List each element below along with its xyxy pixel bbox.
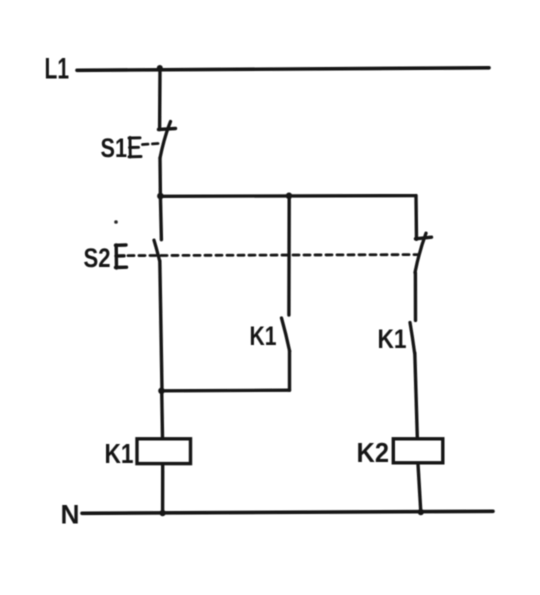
pushbutton S2 right contact (NC) moving contact (415, 233, 426, 272)
wire node A to right branch (horizontal) (160, 194, 416, 198)
node C junction dot (158, 388, 165, 395)
svg-text:S1: S1 (101, 133, 128, 163)
wire seal-in horizontal connector (162, 389, 290, 393)
node A junction dot (157, 193, 164, 200)
coil K2 box (393, 439, 443, 463)
svg-text:L1: L1 (45, 53, 70, 86)
junction dot N/right branch (418, 509, 424, 515)
wire node B to K1 mid contact (287, 196, 291, 315)
S2 mechanical link dashed line (128, 255, 418, 256)
wire coil K2 to N (418, 464, 421, 512)
rail N (82, 511, 493, 513)
contact K1 right (NO) moving contact (410, 323, 415, 354)
wire L1 to S1 (158, 70, 162, 130)
svg-text:K1: K1 (378, 324, 407, 354)
rail L1 (77, 68, 489, 71)
wire coil K1 to N (161, 465, 164, 513)
svg-text:N: N (61, 500, 80, 530)
contact K1 mid (NO) moving contact (282, 318, 290, 351)
node B junction dot (286, 193, 293, 200)
wire K1 right contact to coil K2 (415, 353, 418, 437)
wire S1 to node A (158, 158, 162, 196)
wire node C to coil K1 (160, 391, 164, 438)
S2 actuator E (116, 245, 127, 268)
coil K1 box (137, 439, 191, 464)
pushbutton S2 right contact (NC) seat (416, 237, 432, 239)
wire S2 right contact to K1 right contact (414, 273, 418, 321)
pushbutton S2 left contact (NO) moving contact (154, 240, 160, 261)
wire node A to S2 left contact (160, 196, 161, 240)
svg-text:K1: K1 (105, 438, 134, 469)
junction dot L1/left branch (157, 65, 163, 71)
stray speck (114, 220, 118, 224)
wire right branch drop to S2 right contact (414, 196, 418, 240)
S1 actuator E (129, 138, 141, 158)
svg-text:K1: K1 (250, 321, 277, 351)
svg-text:S2: S2 (84, 243, 111, 273)
S1 actuator link dashes (143, 144, 159, 145)
pushbutton S1 (NC) seat (159, 129, 176, 130)
wire S2 left contact to node C (160, 261, 162, 391)
pushbutton S1 (NC) moving contact (160, 122, 171, 159)
wire K1 mid contact to node C branch (288, 351, 291, 390)
svg-text:K2: K2 (357, 437, 390, 468)
junction dot N/left branch (159, 510, 165, 516)
